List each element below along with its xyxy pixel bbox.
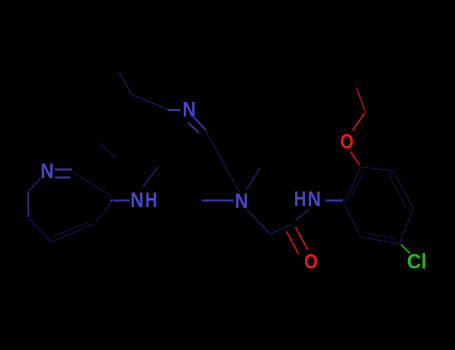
N-CH2 down-right bond — [247, 210, 270, 234]
methyl/chain end upper left — [119, 72, 132, 95]
edge B4-B5 inner — [367, 233, 397, 239]
svg-text:N: N — [308, 188, 321, 211]
bond N1-C6 — [28, 178, 41, 192]
edge B1-B2 top — [361, 167, 393, 171]
bond C4a=C4 outer — [52, 224, 94, 242]
bond NH-C(ring) up-right stub — [143, 167, 158, 187]
O-phenyl bond (red) — [351, 152, 360, 166]
bond C4a=C4 inner — [55, 223, 89, 236]
tertiary N label — [235, 190, 248, 213]
amide HN label — [294, 188, 321, 211]
bond C3-NH — [110, 200, 130, 202]
svg-text:H: H — [294, 188, 306, 211]
N=C double outer — [194, 117, 207, 130]
O-CH2 bond (red) — [353, 113, 366, 131]
edge B3-B4 — [400, 209, 414, 244]
C-Cl bond (green) — [401, 245, 410, 254]
svg-text:N: N — [41, 160, 54, 183]
svg-text:O: O — [304, 250, 318, 273]
carbonyl O label — [304, 250, 318, 273]
Cl label — [407, 250, 427, 273]
N=C double inner — [188, 123, 199, 134]
long diagonal C to N(tert) — [206, 131, 241, 194]
edge B4-B5 bottom — [361, 237, 399, 244]
bond C4-C3 — [95, 200, 114, 223]
secondary amine NH label — [130, 189, 157, 212]
bond C2-C3 — [72, 172, 113, 197]
edge B2-B3 — [394, 171, 414, 208]
CH2-CH3 bond — [357, 88, 365, 112]
C=O double inner (red) — [287, 232, 299, 255]
edge B5-B6 — [345, 203, 361, 236]
chain bond to central N (shallow diagonal) — [132, 95, 169, 110]
pyridine N1 (left ring) label — [41, 160, 54, 183]
svg-text:N: N — [130, 189, 143, 212]
bond C5-C4a — [28, 219, 51, 242]
edge B2-B3 inner — [389, 176, 407, 208]
N-CH3 up-right bond — [247, 168, 261, 190]
central aromatic N label — [183, 98, 196, 121]
N-CH3 left bond — [202, 200, 234, 202]
short diagonal below chain (upper-left of NH) — [99, 144, 116, 158]
bright nub into N — [168, 109, 181, 111]
edge B6-B1 inner — [350, 172, 364, 200]
svg-text:Cl: Cl — [407, 250, 427, 273]
CH2-C(=O) bond — [271, 225, 292, 234]
bond N1=C2 outer line — [55, 169, 72, 171]
HN-phenyl bond — [326, 200, 344, 202]
ether O label — [340, 131, 354, 154]
bond C6-C5 vertical — [27, 192, 29, 217]
edge B6-B1 — [345, 167, 361, 203]
svg-text:H: H — [145, 189, 157, 212]
svg-text:N: N — [235, 190, 248, 213]
C-N(H) bond — [296, 210, 309, 221]
C=O double outer (red) — [296, 227, 308, 250]
svg-text:O: O — [340, 131, 354, 154]
bond N1=C2 inner line — [55, 177, 71, 179]
